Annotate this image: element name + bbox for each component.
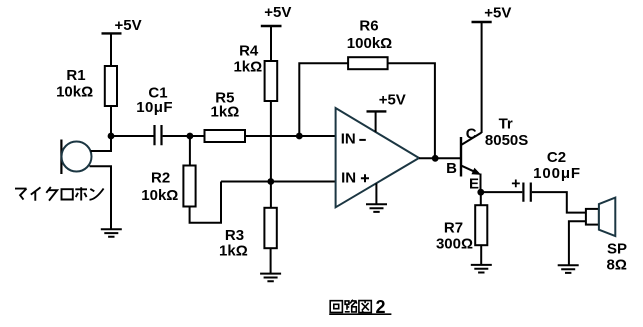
resistor R7 <box>436 205 487 252</box>
wire R4 bottom through node C to R3 <box>270 101 272 208</box>
svg-text:IN: IN <box>341 170 356 187</box>
wire node F to C2 <box>481 191 523 193</box>
ground (microphone) <box>101 229 122 237</box>
svg-text:R1: R1 <box>66 67 85 84</box>
resistor R5 <box>205 89 246 142</box>
wire +5V to R1 <box>110 33 112 66</box>
resistor R1 <box>56 66 117 106</box>
wire feedback node D up and to R6 <box>299 63 348 136</box>
wire R7 to ground <box>480 245 482 265</box>
svg-text:B: B <box>446 160 457 177</box>
caption 回路図2 (kanji drawn as paths) <box>329 297 391 317</box>
node A junction <box>108 133 115 140</box>
capacitor C1 <box>136 84 173 145</box>
wire R2 bottom to IN+ line <box>190 182 221 223</box>
svg-text:1kΩ: 1kΩ <box>211 103 240 120</box>
power +5V (collector) <box>472 4 512 22</box>
svg-text:+5V: +5V <box>379 92 406 109</box>
node E junction <box>432 155 439 162</box>
ground (R7) <box>471 265 492 273</box>
wire R3 to ground <box>270 248 272 273</box>
node B junction <box>187 133 194 140</box>
svg-text:10kΩ: 10kΩ <box>56 83 93 100</box>
power +5V (op-amp) <box>367 92 406 133</box>
wire node F to R7 <box>480 192 482 205</box>
node F junction <box>477 189 484 196</box>
svg-text:8050S: 8050S <box>485 132 528 149</box>
svg-text:300Ω: 300Ω <box>436 236 473 253</box>
wire mic top terminal to node A <box>91 136 112 151</box>
wire emitter to node F <box>480 174 482 193</box>
svg-text:C2: C2 <box>547 149 566 166</box>
wire mic bottom terminal to ground <box>90 166 112 229</box>
node D junction (feedback tap) <box>296 133 303 140</box>
svg-text:1kΩ: 1kΩ <box>233 59 262 76</box>
svg-text:R4: R4 <box>239 43 259 60</box>
microphone MIC <box>61 140 91 175</box>
wire +5V to R4 <box>270 26 272 61</box>
wire node B to R5 <box>190 135 205 137</box>
op-amp U1 <box>336 108 419 207</box>
resistor R6 <box>347 18 392 70</box>
power +5V (R4 branch) <box>261 4 292 26</box>
resistor R2 <box>141 166 195 207</box>
svg-text:R2: R2 <box>151 170 170 187</box>
svg-text:100kΩ: 100kΩ <box>347 35 392 52</box>
svg-text:100μF: 100μF <box>533 165 581 182</box>
wire R6 to output node E <box>388 63 435 158</box>
wire +5V to collector <box>481 22 483 133</box>
wire op-amp output to transistor base <box>419 157 462 159</box>
wire IN+ line <box>221 181 336 183</box>
transistor Q1 Tr 8050S <box>446 116 528 193</box>
resistor R3 <box>219 208 277 260</box>
resistor R4 <box>233 43 277 102</box>
svg-text:10μF: 10μF <box>136 99 173 116</box>
svg-text:R7: R7 <box>444 219 463 236</box>
wire node A to C1 <box>111 135 154 137</box>
ground (op-amp) <box>366 204 387 212</box>
svg-text:8Ω: 8Ω <box>607 257 627 274</box>
svg-text:10kΩ: 10kΩ <box>141 187 178 204</box>
power +5V (R1 branch) <box>102 17 142 34</box>
ground (speaker) <box>558 265 579 273</box>
wire speaker bottom terminal to ground <box>569 221 586 265</box>
svg-text:+5V: +5V <box>115 17 142 34</box>
wire op-amp to ground <box>375 183 377 204</box>
svg-text:R6: R6 <box>359 18 378 35</box>
label microphone (katakana) <box>15 187 104 201</box>
capacitor C2 <box>512 149 581 202</box>
svg-text:C: C <box>466 125 477 142</box>
wire C2 to speaker top terminal <box>532 192 586 213</box>
svg-text:IN: IN <box>341 131 356 148</box>
wire node B to R2 <box>189 136 191 166</box>
wire R1 to node A <box>110 106 112 136</box>
svg-text:Tr: Tr <box>499 116 513 133</box>
wire C1 to node B <box>163 135 190 137</box>
svg-text:SP: SP <box>607 241 627 258</box>
wire R5 to op-amp IN- <box>245 135 336 137</box>
node C junction <box>267 178 274 185</box>
ground (R3) <box>260 274 281 282</box>
svg-text:+5V: +5V <box>264 4 291 21</box>
svg-text:E: E <box>469 175 479 192</box>
svg-text:1kΩ: 1kΩ <box>219 243 248 260</box>
speaker SP <box>586 198 627 274</box>
svg-text:+5V: +5V <box>484 4 511 21</box>
